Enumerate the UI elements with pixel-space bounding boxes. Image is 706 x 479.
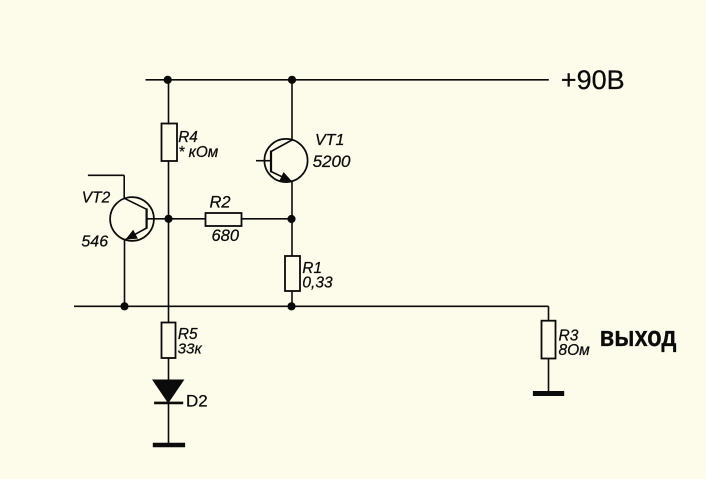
resistor R2: [206, 213, 242, 226]
ground (below R3): [533, 391, 564, 396]
wire: R1 to output rail: [291, 291, 293, 306]
wire: R3 to ground: [548, 359, 550, 392]
svg-text:* кОм: * кОм: [178, 144, 218, 161]
diode D2: [154, 380, 184, 403]
wire: +90V top rail: [146, 79, 549, 81]
node: VT1 emitter / R2 / R1 junction: [288, 216, 295, 223]
node: VT2 base / R4 / R5 junction: [165, 216, 172, 223]
svg-text:680: 680: [212, 227, 240, 245]
wire: D2 to ground: [168, 403, 170, 445]
wire: output rail to R3: [548, 306, 550, 321]
ground (below D2): [153, 443, 185, 448]
svg-text:5200: 5200: [313, 152, 351, 171]
wire: rail to R4: [168, 80, 170, 125]
wire: VT2 base lead to junction and R2: [147, 218, 206, 220]
wire: emitter node to R1: [291, 219, 293, 256]
svg-text:546: 546: [81, 234, 108, 251]
wire: output rail: [74, 305, 549, 307]
node: rail / R4 junction: [164, 77, 171, 84]
node: R1 / output rail junction: [288, 303, 295, 310]
node: VT2 emitter / output rail junction: [121, 303, 128, 310]
resistor R1: [285, 256, 300, 291]
transistor VT1: [256, 80, 308, 219]
wire: R4 to VT2 base node: [168, 161, 170, 219]
svg-text:R2: R2: [210, 194, 231, 212]
svg-text:8Ом: 8Ом: [559, 342, 591, 359]
svg-text:VT1: VT1: [315, 132, 344, 149]
resistor R5: [162, 323, 176, 359]
node: rail / VT1 collector junction: [289, 77, 296, 84]
wire: VT2 base node down to R5 (crosses output rail): [168, 219, 170, 323]
svg-text:выход: выход: [600, 320, 677, 353]
svg-text:33к: 33к: [178, 341, 203, 358]
resistor R3: [542, 321, 556, 359]
svg-text:VT2: VT2: [82, 189, 111, 206]
svg-text:0,33: 0,33: [302, 275, 333, 292]
transistor VT2: [88, 175, 154, 306]
svg-text:+90В: +90В: [561, 65, 625, 95]
wire: R2 to VT1 emitter node: [242, 218, 292, 220]
wire: R5 to D2: [168, 358, 170, 381]
resistor R4: [162, 124, 178, 162]
svg-text:D2: D2: [186, 391, 208, 410]
